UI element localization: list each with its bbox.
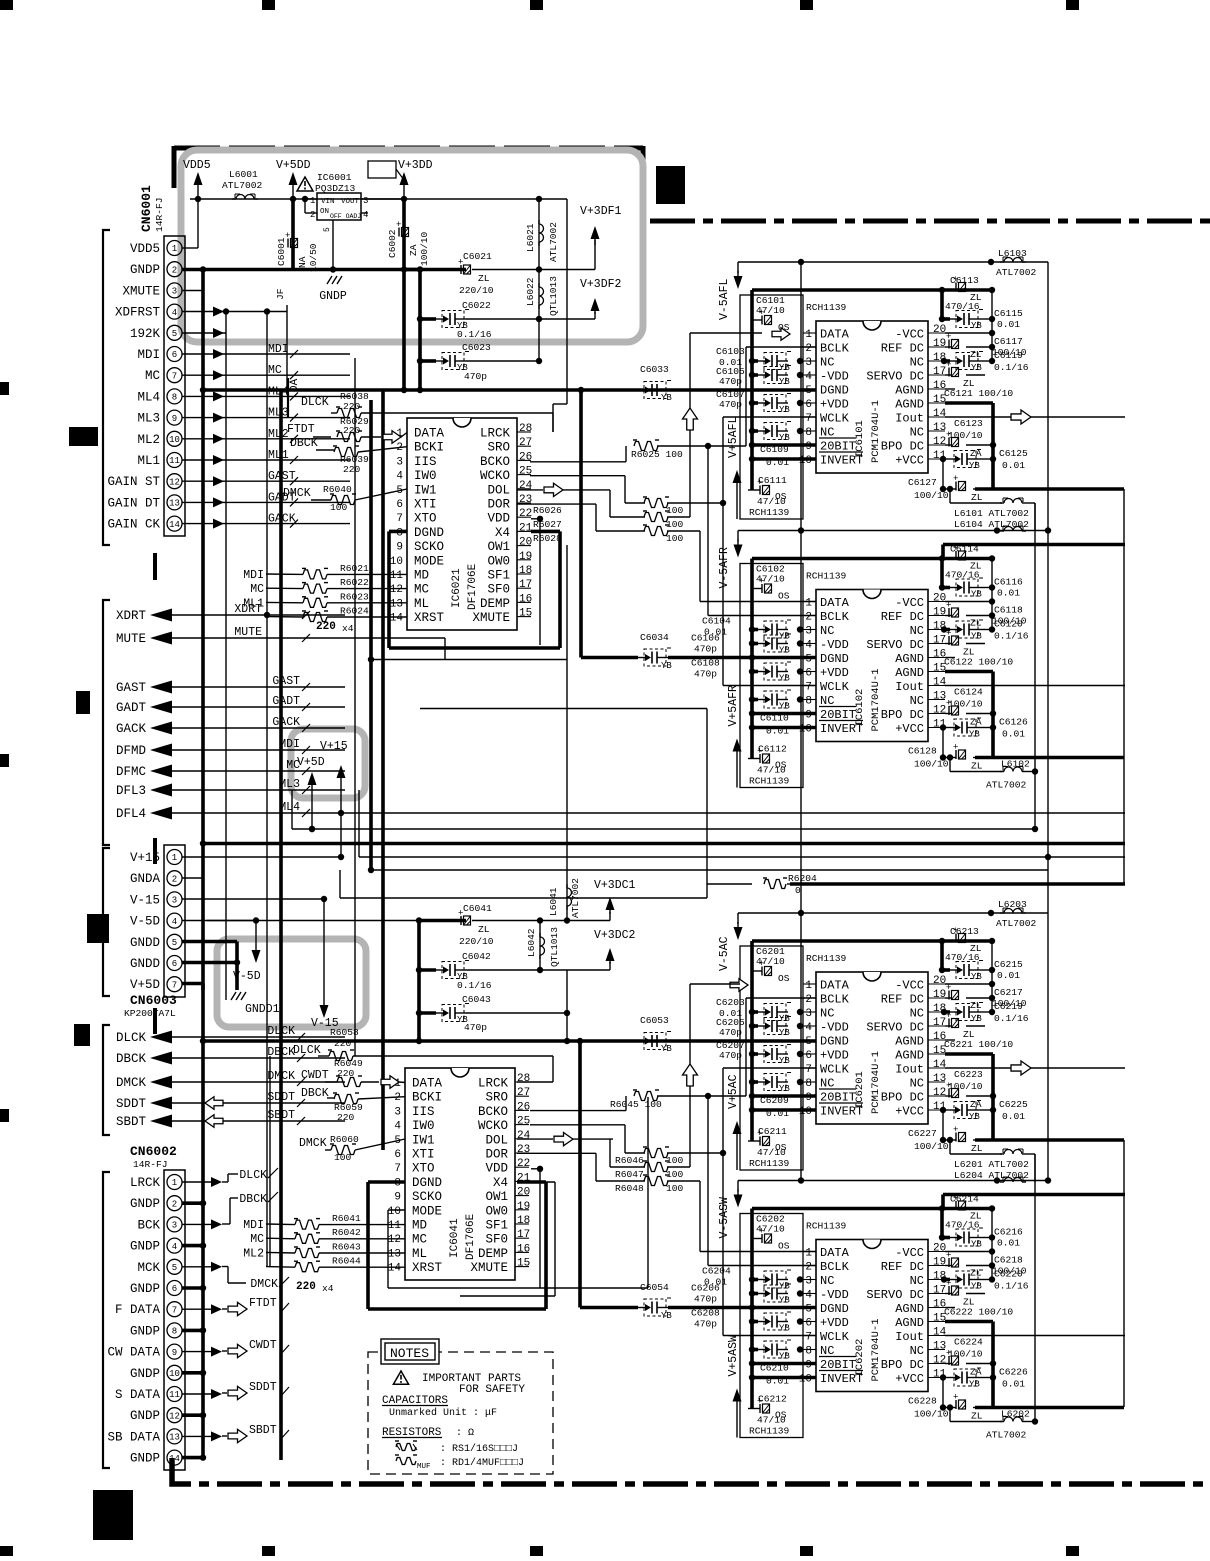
svg-text:GNDP: GNDP xyxy=(319,290,347,303)
svg-text:28: 28 xyxy=(519,423,532,435)
svg-text:C6225: C6225 xyxy=(999,1099,1028,1110)
svg-text:DFMD: DFMD xyxy=(116,744,146,758)
svg-text:AGND: AGND xyxy=(895,1316,924,1330)
svg-text:-VDD: -VDD xyxy=(820,1021,849,1035)
wires CN6001 pins6-14 nets MDI MC ML4 ML3 ML2 ML1 GAST GADT GACK xyxy=(182,343,350,529)
svg-text:12: 12 xyxy=(933,1087,946,1099)
svg-text:220/10: 220/10 xyxy=(459,285,494,296)
svg-text:6: 6 xyxy=(394,1149,401,1161)
svg-text:3: 3 xyxy=(172,1221,177,1231)
svg-text:LRCK: LRCK xyxy=(478,1077,509,1091)
svg-text:GAST: GAST xyxy=(272,675,300,688)
bus vertical x267 xyxy=(266,312,268,1268)
svg-text:Iout: Iout xyxy=(895,680,924,694)
svg-text:R6044: R6044 xyxy=(332,1256,361,1267)
resistor R6060 DMCK2 xyxy=(299,1134,405,1163)
svg-text:-VCC: -VCC xyxy=(895,596,924,610)
svg-text:ATL7002: ATL7002 xyxy=(996,267,1037,278)
svg-text:BCKI: BCKI xyxy=(414,441,444,455)
svg-text:C6220: C6220 xyxy=(994,1269,1023,1280)
svg-text:FTDT: FTDT xyxy=(249,1297,277,1310)
svg-text:12: 12 xyxy=(933,705,946,717)
svg-text:NC: NC xyxy=(820,356,834,370)
bus vertical x281 xyxy=(279,390,283,1460)
svg-text:DLCK: DLCK xyxy=(301,396,329,409)
svg-text:12: 12 xyxy=(169,477,180,487)
svg-text:17: 17 xyxy=(933,1017,946,1029)
DAC IC6101 PCM1704U-1 with RCH1139 module xyxy=(740,290,947,519)
svg-text:6: 6 xyxy=(805,668,812,680)
label V-5AC xyxy=(718,936,731,971)
bus vertical GNDP x203 xyxy=(201,270,205,1459)
svg-text:DOR: DOR xyxy=(485,1148,508,1162)
svg-text:ML2: ML2 xyxy=(137,433,160,447)
svg-text:C6213: C6213 xyxy=(950,926,979,937)
svg-text:C6217: C6217 xyxy=(994,987,1023,998)
label V+3DF1 xyxy=(580,205,622,218)
svg-text:R6027: R6027 xyxy=(533,519,562,530)
svg-text:R6043: R6043 xyxy=(332,1241,361,1252)
svg-text:GACK: GACK xyxy=(272,716,300,729)
labels R6058 xyxy=(330,1027,359,1049)
svg-text:YB: YB xyxy=(779,433,790,443)
long vertical x801 xyxy=(800,262,802,1181)
svg-text:220: 220 xyxy=(343,464,361,475)
svg-text:XRST: XRST xyxy=(414,611,445,625)
svg-text:V-5AFR: V-5AFR xyxy=(718,547,731,589)
svg-text:GNDP: GNDP xyxy=(130,1452,160,1466)
svg-text:DEMP: DEMP xyxy=(480,597,510,611)
border bottom dash-dot xyxy=(172,1458,1210,1484)
svg-text:YB: YB xyxy=(779,646,790,656)
svg-text:YB: YB xyxy=(971,590,982,600)
svg-text:SB DATA: SB DATA xyxy=(107,1430,160,1444)
inductor L6103 ATL7002 xyxy=(996,248,1037,278)
bus line y870 xyxy=(368,867,1048,873)
svg-text:x4: x4 xyxy=(342,623,354,634)
svg-text:BCKO: BCKO xyxy=(480,455,510,469)
svg-text:C6002: C6002 xyxy=(387,229,398,258)
svg-text:MUTE: MUTE xyxy=(234,626,262,639)
svg-text:DEMP: DEMP xyxy=(478,1247,508,1261)
svg-text:0.01: 0.01 xyxy=(997,588,1020,599)
svg-text:NC: NC xyxy=(910,1274,924,1288)
labels left caps IC6202 xyxy=(691,1266,731,1330)
net DMCK CN6002 xyxy=(222,1267,289,1292)
svg-text:WCLK: WCLK xyxy=(820,1330,850,1344)
svg-text:V-5D: V-5D xyxy=(233,970,261,983)
svg-text:NC: NC xyxy=(910,1344,924,1358)
svg-text:GAIN ST: GAIN ST xyxy=(107,475,160,489)
svg-text:BPO DC: BPO DC xyxy=(881,1358,924,1372)
svg-text:220: 220 xyxy=(316,621,336,633)
svg-text:SDDT: SDDT xyxy=(116,1097,147,1111)
svg-text:SRO: SRO xyxy=(485,1091,508,1105)
svg-text:6: 6 xyxy=(172,1284,177,1294)
svg-text:L6102: L6102 xyxy=(1001,759,1030,770)
svg-text:4: 4 xyxy=(805,640,812,652)
svg-text:17: 17 xyxy=(519,579,532,591)
svg-text:27: 27 xyxy=(517,1087,530,1099)
svg-text:WCLK: WCLK xyxy=(820,680,850,694)
top supply wire V-5AFL xyxy=(734,259,1049,289)
svg-text:12: 12 xyxy=(169,1411,180,1421)
svg-text:DGND: DGND xyxy=(820,1035,849,1049)
svg-text:L6202: L6202 xyxy=(1001,1409,1030,1420)
svg-text:R6028: R6028 xyxy=(533,533,562,544)
svg-text:+VCC: +VCC xyxy=(895,1372,924,1386)
top supply wire V-5AFR xyxy=(734,527,1052,557)
svg-text:RCH1139: RCH1139 xyxy=(806,1221,847,1232)
svg-text:ZL: ZL xyxy=(971,1143,983,1154)
svg-text:IC6001: IC6001 xyxy=(317,172,352,183)
svg-text:12: 12 xyxy=(388,1234,401,1246)
wire CN6001 pin1 VDD5 xyxy=(182,199,198,248)
svg-text:4: 4 xyxy=(363,210,368,220)
svg-text:24: 24 xyxy=(517,1130,531,1142)
svg-text:BCK: BCK xyxy=(137,1218,160,1232)
svg-text:8: 8 xyxy=(805,1346,812,1358)
svg-text:100/10: 100/10 xyxy=(948,699,983,710)
svg-text:YB: YB xyxy=(661,1044,672,1054)
resistor R6039 DBCK xyxy=(290,437,407,475)
svg-text:17: 17 xyxy=(933,1285,946,1297)
svg-text:L6022: L6022 xyxy=(525,277,536,306)
svg-text:MD: MD xyxy=(414,569,429,583)
svg-text:V+3DC2: V+3DC2 xyxy=(594,929,636,942)
svg-text:YB: YB xyxy=(779,1084,790,1094)
svg-text:2: 2 xyxy=(172,1199,177,1209)
svg-text:DOL: DOL xyxy=(485,1133,508,1147)
svg-text:C6209: C6209 xyxy=(760,1095,789,1106)
svg-text:AGND: AGND xyxy=(895,652,924,666)
svg-text:6: 6 xyxy=(805,1050,812,1062)
wire CN6003 pin4 V-5D xyxy=(182,917,259,947)
svg-text:220: 220 xyxy=(343,425,361,436)
svg-text:V-15: V-15 xyxy=(130,893,160,907)
IC U-IC6021 DF1706E xyxy=(390,418,533,630)
svg-text:V+5D: V+5D xyxy=(130,978,160,992)
svg-text:BCLK: BCLK xyxy=(820,1260,850,1274)
svg-text:1: 1 xyxy=(805,980,812,992)
svg-text:4: 4 xyxy=(805,1290,812,1302)
svg-text:SERVO DC: SERVO DC xyxy=(866,370,924,384)
svg-text:RCH1139: RCH1139 xyxy=(749,1426,790,1437)
svg-text:8: 8 xyxy=(805,1078,812,1090)
svg-text:GNDD: GNDD xyxy=(130,957,160,971)
svg-text:26: 26 xyxy=(517,1101,530,1113)
svg-text:22: 22 xyxy=(519,508,532,520)
thick supply feed IC6202 xyxy=(943,1195,1125,1209)
inductor L6101/L6104 ATL7002 xyxy=(947,486,1035,531)
wire CN6003 pin3 V-15 xyxy=(182,896,327,940)
svg-text:GAIN CK: GAIN CK xyxy=(107,518,160,532)
svg-text:MC: MC xyxy=(414,583,429,597)
svg-text:4: 4 xyxy=(396,471,403,483)
label V+5DD xyxy=(276,159,311,172)
svg-text:L6001: L6001 xyxy=(229,169,258,180)
svg-text:0.01: 0.01 xyxy=(1002,729,1025,740)
decoupling right column IC6202 xyxy=(752,1194,1125,1422)
svg-text:MDI: MDI xyxy=(268,343,289,356)
svg-text:8: 8 xyxy=(172,1327,177,1337)
NOTES resistors xyxy=(382,1427,524,1471)
IC U-IC6041 DF1706E xyxy=(388,1068,531,1280)
svg-text:REF DC: REF DC xyxy=(881,993,924,1007)
svg-text:470p: 470p xyxy=(719,399,742,410)
svg-text:YB: YB xyxy=(779,1296,790,1306)
svg-text:12: 12 xyxy=(390,584,403,596)
svg-text:XMUTE: XMUTE xyxy=(470,1261,508,1275)
section mark rect B xyxy=(76,691,90,714)
svg-text:R6048: R6048 xyxy=(615,1183,644,1194)
svg-text:YB: YB xyxy=(971,363,982,373)
svg-text:AGND: AGND xyxy=(895,1035,924,1049)
svg-text:100/10: 100/10 xyxy=(948,1349,983,1360)
svg-text:4: 4 xyxy=(394,1121,401,1133)
top supply wire V-5ASW xyxy=(734,1177,1052,1207)
wire V+3DF2 xyxy=(591,298,600,319)
svg-text:7: 7 xyxy=(396,513,403,525)
svg-text:+VCC: +VCC xyxy=(895,722,924,736)
wire CN6003 pin5 GNDD xyxy=(182,940,237,944)
svg-text:VDD5: VDD5 xyxy=(183,159,211,172)
svg-text:QTL1013: QTL1013 xyxy=(549,927,560,967)
svg-text:ZA: ZA xyxy=(408,244,419,256)
svg-text:R6023: R6023 xyxy=(340,591,369,602)
wire wrap MODE IC6041 xyxy=(388,1097,648,1288)
svg-text:20: 20 xyxy=(519,537,532,549)
svg-text:C6034: C6034 xyxy=(640,632,669,643)
wire DGND feed to DAC4 xyxy=(580,1041,816,1311)
svg-text:ML4: ML4 xyxy=(137,390,160,404)
bracket CN6001 group xyxy=(103,230,110,545)
svg-text:C6120: C6120 xyxy=(994,619,1023,630)
svg-text:17: 17 xyxy=(933,635,946,647)
resistor R6204 xyxy=(420,709,1125,899)
svg-text:100/10: 100/10 xyxy=(419,231,430,266)
svg-text:RCH1139: RCH1139 xyxy=(749,507,790,518)
svg-text:MDI: MDI xyxy=(137,348,160,362)
svg-text:NC: NC xyxy=(910,426,924,440)
svg-text:47/10: 47/10 xyxy=(757,496,786,507)
svg-text:R6045 100: R6045 100 xyxy=(610,1099,662,1110)
svg-text:ATL7002: ATL7002 xyxy=(996,918,1037,929)
svg-text:DOR: DOR xyxy=(487,498,510,512)
svg-text:DGND: DGND xyxy=(820,652,849,666)
svg-text:MDI: MDI xyxy=(243,569,264,582)
svg-text:0.1/16: 0.1/16 xyxy=(994,1013,1029,1024)
thick supply feed IC6102 xyxy=(943,545,1125,559)
svg-text:GNDP: GNDP xyxy=(130,1282,160,1296)
svg-text:L6042: L6042 xyxy=(526,928,537,957)
DAC IC6102 PCM1704U-1 with RCH1139 module xyxy=(740,559,947,788)
svg-text:C6224: C6224 xyxy=(954,1337,983,1348)
svg-text:PCM1704U-1: PCM1704U-1 xyxy=(870,1318,882,1381)
svg-text:ZL: ZL xyxy=(478,924,490,935)
svg-text:SCKO: SCKO xyxy=(412,1190,442,1204)
svg-text:C6223: C6223 xyxy=(954,1069,983,1080)
svg-text:DLCK: DLCK xyxy=(267,1025,295,1038)
svg-text:3: 3 xyxy=(363,196,368,206)
wire CN6001 pin3 XMUTE xyxy=(182,290,203,292)
svg-text:C6227: C6227 xyxy=(908,1128,937,1139)
svg-text:PCM1704U-1: PCM1704U-1 xyxy=(870,1051,882,1114)
svg-text:VIN: VIN xyxy=(321,198,335,206)
svg-text:GNDP: GNDP xyxy=(130,1197,160,1211)
svg-text:VDD5: VDD5 xyxy=(130,242,160,256)
svg-text:V+5AFL: V+5AFL xyxy=(727,416,740,458)
inductor L6201/L6204 ATL7002 xyxy=(947,1137,1035,1182)
svg-text:19: 19 xyxy=(933,1257,946,1269)
svg-text:100/10: 100/10 xyxy=(914,1409,949,1420)
warning triangle IC6001 xyxy=(297,177,313,191)
svg-text:+VDD: +VDD xyxy=(820,1316,849,1330)
wire DGND feed to DAC2 xyxy=(581,390,816,661)
svg-text:BPO DC: BPO DC xyxy=(881,1091,924,1105)
svg-text:C6116: C6116 xyxy=(994,577,1023,588)
svg-text:YB: YB xyxy=(779,1352,790,1362)
svg-text:DBCK: DBCK xyxy=(290,437,318,450)
svg-text:SF0: SF0 xyxy=(487,583,510,597)
svg-text:ZL: ZL xyxy=(971,492,983,503)
svg-text:8: 8 xyxy=(172,393,177,403)
svg-text:L6201 ATL7002: L6201 ATL7002 xyxy=(954,1159,1029,1170)
ground GNDD1 xyxy=(231,992,280,1016)
bus vertical x371 xyxy=(369,400,373,870)
svg-text:DFL4: DFL4 xyxy=(116,807,146,821)
svg-text:2: 2 xyxy=(805,1262,812,1274)
top supply wire V-5AC xyxy=(734,910,1049,940)
svg-text:100: 100 xyxy=(330,502,348,513)
bracket CN6003 xyxy=(103,848,110,996)
svg-text:C6218: C6218 xyxy=(994,1255,1023,1266)
svg-text:BCLK: BCLK xyxy=(820,342,850,356)
svg-text:ZL: ZL xyxy=(970,349,982,360)
svg-text:10: 10 xyxy=(169,1369,180,1379)
svg-text:AGND: AGND xyxy=(895,1049,924,1063)
wire JF vertical xyxy=(275,288,287,390)
svg-text:C6125: C6125 xyxy=(999,448,1028,459)
svg-text:V-5ASW: V-5ASW xyxy=(718,1197,731,1239)
svg-text:DBCK: DBCK xyxy=(301,1087,329,1100)
svg-text:3: 3 xyxy=(805,626,812,638)
bus DGND thick y390 xyxy=(200,387,816,393)
svg-text:C6021: C6021 xyxy=(463,251,492,262)
inductor L6022 QTL1013 xyxy=(525,270,559,320)
svg-text:100/10: 100/10 xyxy=(914,759,949,770)
svg-text:100: 100 xyxy=(334,1152,352,1163)
svg-text:IC6102: IC6102 xyxy=(854,689,866,727)
wire VDD22 down DF2 xyxy=(531,1166,543,1288)
svg-text:7: 7 xyxy=(805,413,812,425)
svg-text:DATA: DATA xyxy=(820,1246,850,1260)
svg-text:IW1: IW1 xyxy=(414,483,437,497)
svg-text:C6215: C6215 xyxy=(994,959,1023,970)
bus line y898 xyxy=(340,870,707,898)
svg-text:14R-FJ: 14R-FJ xyxy=(154,197,165,232)
DAC IC6201 PCM1704U-1 with RCH1139 module xyxy=(740,941,947,1170)
svg-text:REF DC: REF DC xyxy=(881,342,924,356)
svg-text:7: 7 xyxy=(394,1163,401,1175)
svg-text:6: 6 xyxy=(396,499,403,511)
svg-text:GADT: GADT xyxy=(116,701,147,715)
svg-text:9: 9 xyxy=(394,1192,401,1204)
svg-text:IC6041: IC6041 xyxy=(449,1218,461,1258)
wire CN6001 pin5 192K xyxy=(182,328,226,338)
svg-text:CWDT: CWDT xyxy=(249,1339,277,1352)
svg-text:MC: MC xyxy=(250,1233,264,1246)
svg-text:18: 18 xyxy=(517,1215,530,1227)
svg-text:19: 19 xyxy=(933,989,946,1001)
svg-text:15: 15 xyxy=(517,1258,530,1270)
bus vertical x383 xyxy=(270,390,383,1267)
svg-text:0.1/16: 0.1/16 xyxy=(457,329,492,340)
svg-text:3: 3 xyxy=(172,287,177,297)
svg-text:: RS1/16S□□□J: : RS1/16S□□□J xyxy=(440,1443,518,1455)
svg-text:OW1: OW1 xyxy=(485,1190,508,1204)
svg-text:220: 220 xyxy=(343,401,361,412)
svg-text:14: 14 xyxy=(169,520,180,530)
svg-text:SERVO DC: SERVO DC xyxy=(866,1288,924,1302)
svg-text:C6128: C6128 xyxy=(908,746,937,757)
svg-text:CN6003: CN6003 xyxy=(130,993,177,1008)
long vertical x1048 xyxy=(1047,262,1049,1181)
svg-text:2: 2 xyxy=(172,265,177,275)
svg-text:MC: MC xyxy=(145,369,160,383)
svg-text:470p: 470p xyxy=(719,1027,742,1038)
svg-text:2: 2 xyxy=(805,343,812,355)
label V-5AFR xyxy=(718,547,731,589)
svg-text:11: 11 xyxy=(388,1220,402,1232)
svg-text:0.1/16: 0.1/16 xyxy=(994,631,1029,642)
svg-text:KP200TA7L: KP200TA7L xyxy=(124,1008,176,1019)
svg-text:47/10: 47/10 xyxy=(757,1147,786,1158)
svg-text:4: 4 xyxy=(805,1022,812,1034)
inductor L6021 xyxy=(525,196,559,270)
long vertical x1124 xyxy=(1123,489,1125,884)
wire ML4 bus extension xyxy=(338,810,1125,816)
resistor R6029 FTDT xyxy=(287,416,407,443)
svg-text:5: 5 xyxy=(805,1036,812,1048)
svg-text:SDDT: SDDT xyxy=(249,1381,277,1394)
svg-text:7: 7 xyxy=(172,1305,177,1315)
wire MUTE extension xyxy=(345,638,445,660)
svg-text:C6022: C6022 xyxy=(462,300,491,311)
svg-text:19: 19 xyxy=(933,607,946,619)
svg-text:MODE: MODE xyxy=(414,554,444,568)
svg-text:6: 6 xyxy=(805,1318,812,1330)
hollow arrow DATA IC6101 xyxy=(772,328,790,341)
svg-text:100/10: 100/10 xyxy=(914,1141,949,1152)
resistor R6046 WCKO2 to WCLK xyxy=(530,1068,816,1336)
wire V+3DF1 xyxy=(591,226,600,270)
svg-text:R6047: R6047 xyxy=(615,1169,644,1180)
label V-5AFL xyxy=(718,278,731,320)
svg-text:C6043: C6043 xyxy=(462,994,491,1005)
svg-text:470p: 470p xyxy=(694,1294,717,1305)
svg-text:1: 1 xyxy=(172,244,177,254)
label V+15 gray box 2 xyxy=(320,740,348,813)
svg-text:100/10: 100/10 xyxy=(948,430,983,441)
svg-text:YB: YB xyxy=(779,674,790,684)
svg-text:OFF OADJ: OFF OADJ xyxy=(330,213,361,220)
svg-text:GADT: GADT xyxy=(272,695,300,708)
wire regulator pin5 to GNDP xyxy=(323,220,333,270)
wire GNDP thick to caps xyxy=(401,266,423,390)
svg-text:16: 16 xyxy=(517,1243,530,1255)
decoupling right column IC6102 xyxy=(752,544,1125,772)
